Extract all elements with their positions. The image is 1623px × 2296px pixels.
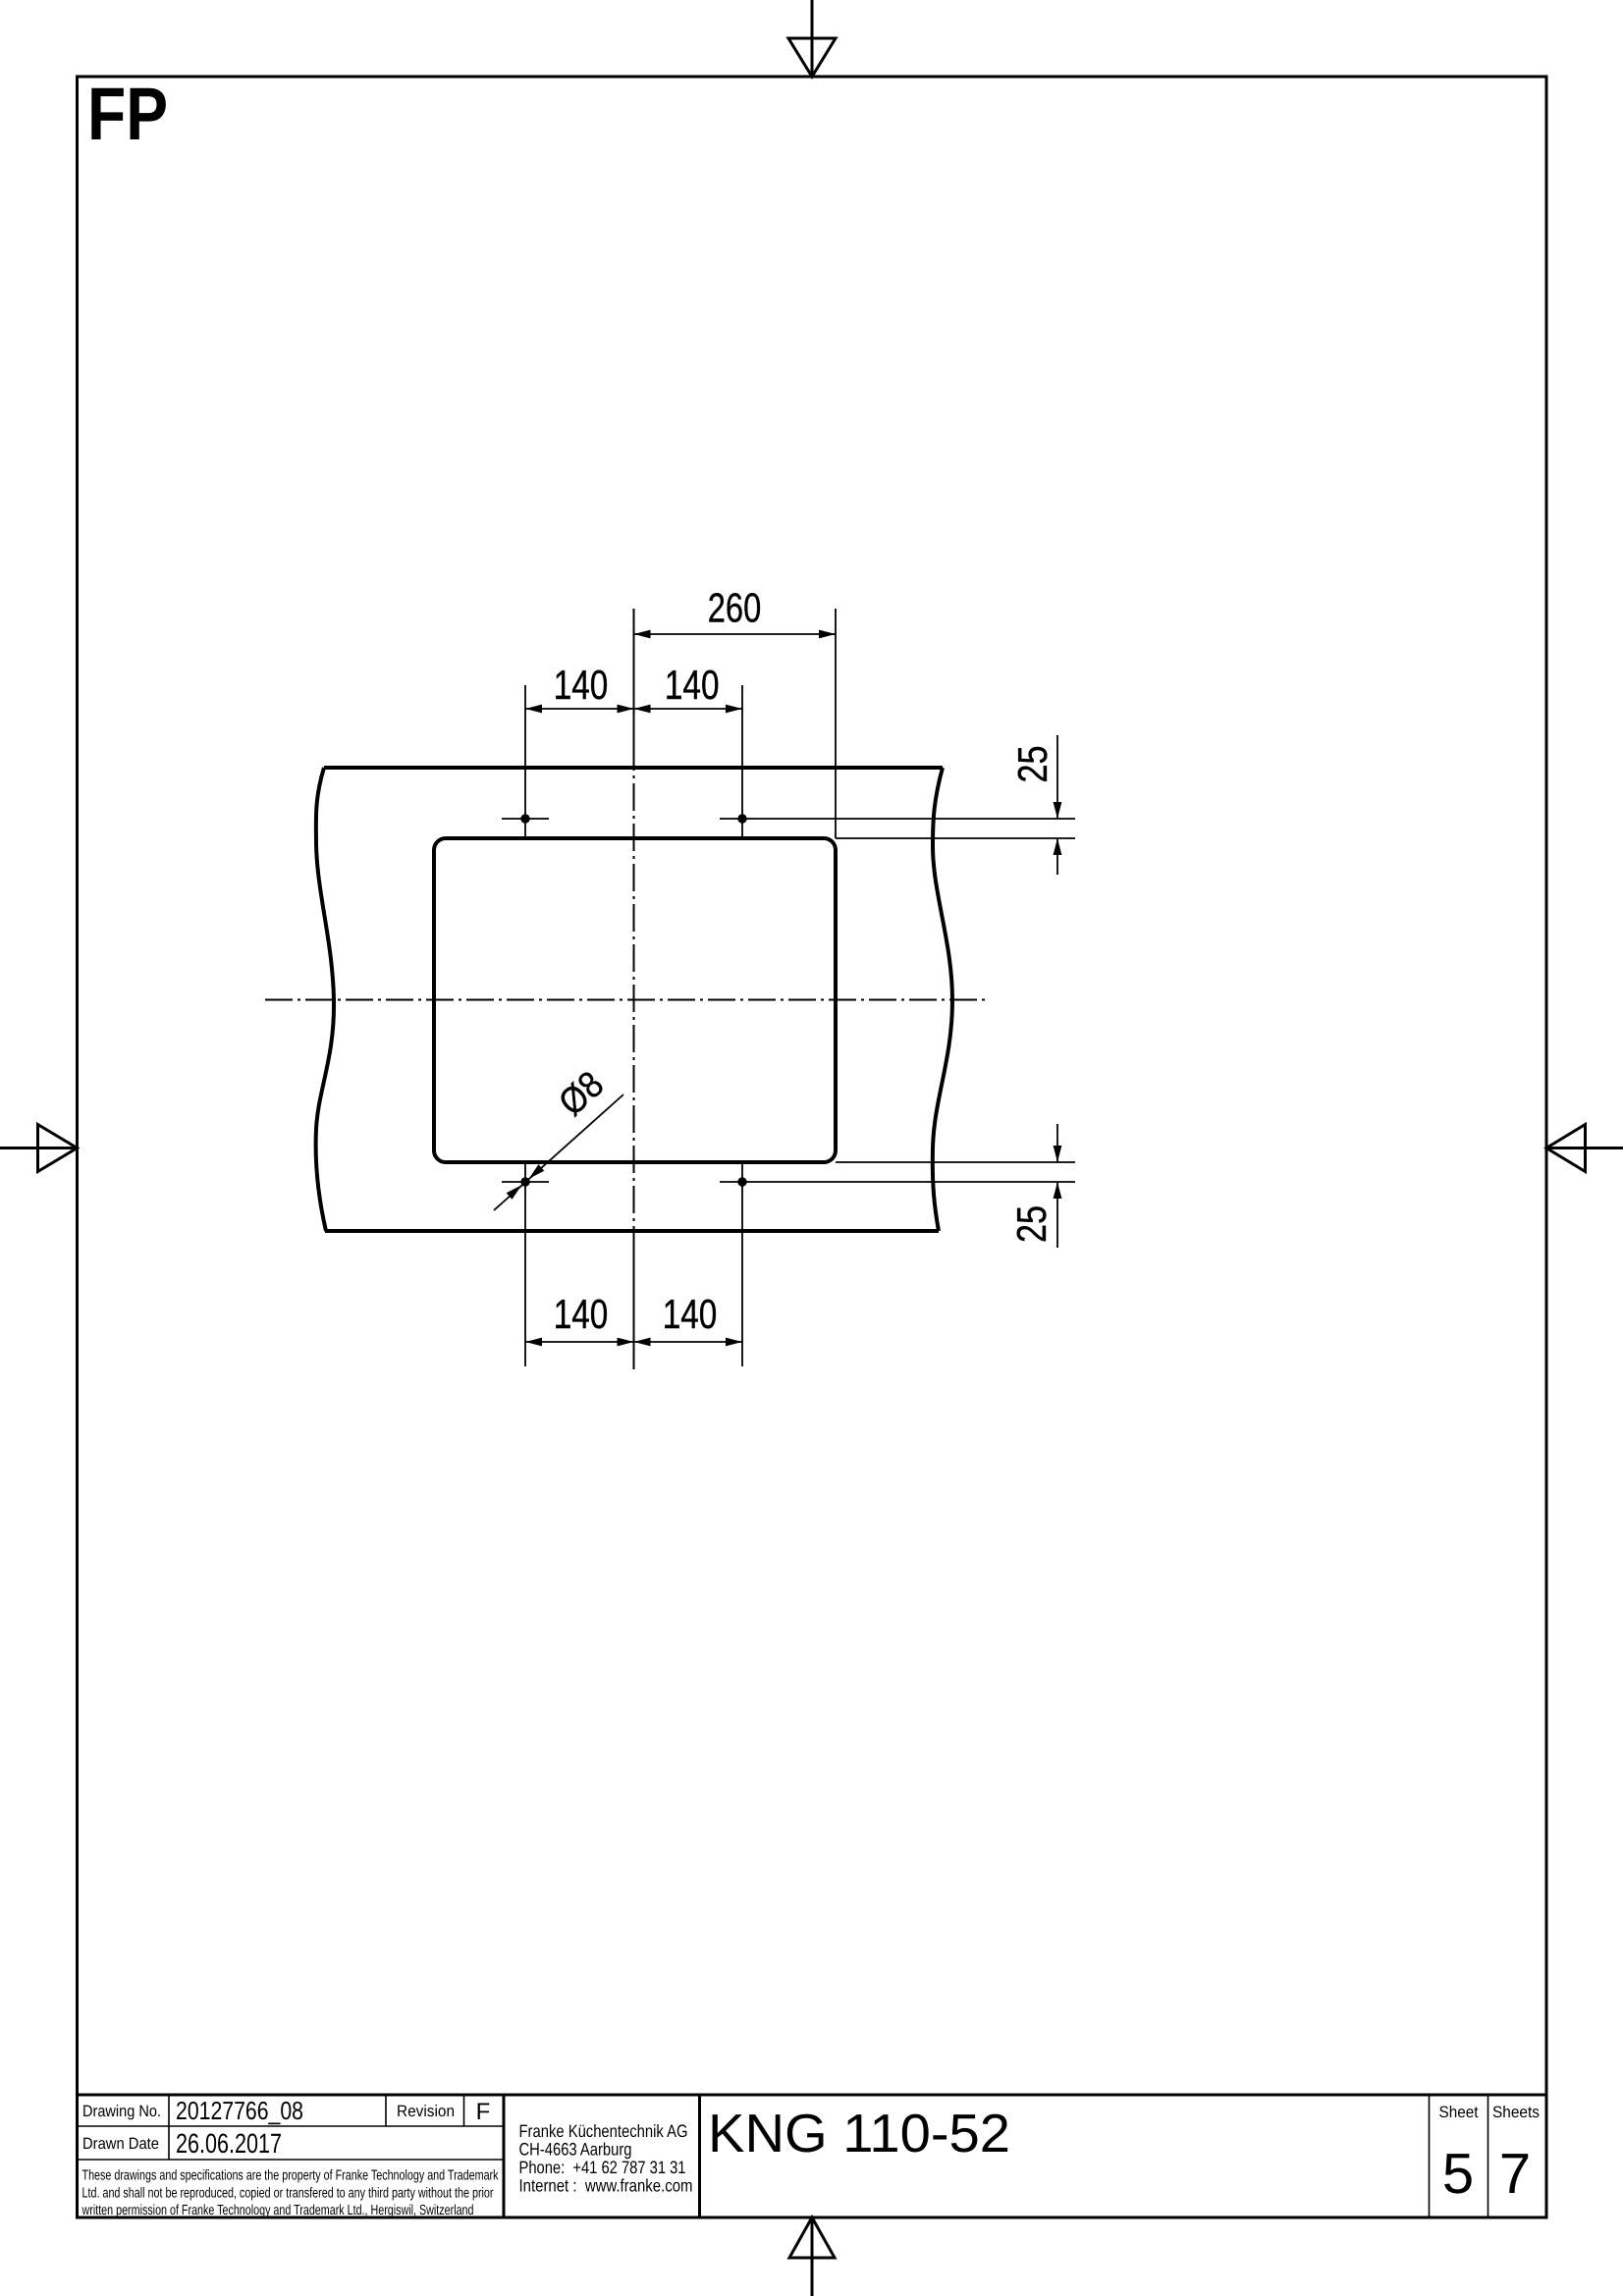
divider before revision letter	[463, 2095, 465, 2126]
svg-text:KNG 110-52: KNG 110-52	[708, 2103, 1010, 2163]
divider before Sheet cell	[1429, 2095, 1431, 2217]
centering mark right	[1546, 1125, 1623, 1172]
svg-text:CH-4663 Aarburg: CH-4663 Aarburg	[519, 2140, 632, 2160]
extension line top-left hole	[524, 685, 526, 838]
dimension line 25 top upper	[1056, 735, 1058, 819]
svg-text:Sheet: Sheet	[1439, 2104, 1479, 2121]
extension line right edge of cutout (for 260 dim)	[835, 609, 837, 838]
divider before Sheets cell	[1488, 2095, 1489, 2217]
extension line cutout bottom edge (to 25 dim)	[836, 1161, 1075, 1163]
svg-text:25: 25	[1008, 1205, 1055, 1243]
dimension line 25 bottom lower	[1056, 1182, 1058, 1248]
svg-text:written permission of Franke T: written permission of Franke Technology …	[81, 2203, 474, 2218]
centering mark left	[0, 1125, 78, 1172]
arrow top-140 far left	[525, 705, 542, 714]
dimension line 140/140 top	[525, 708, 742, 710]
svg-text:Ltd. and shall not be reproduc: Ltd. and shall not be reproduced, copied…	[82, 2186, 494, 2202]
svg-text:140: 140	[665, 662, 720, 708]
vertical centerline: solid extension top	[633, 609, 635, 743]
divider after label column	[168, 2095, 170, 2160]
row divider 1	[78, 2125, 505, 2127]
vertical centerline: solid extension bottom	[633, 1254, 635, 1369]
svg-text:Sheets: Sheets	[1492, 2104, 1540, 2121]
svg-text:Drawn Date: Drawn Date	[82, 2135, 159, 2153]
hole bottom-left	[520, 1177, 529, 1186]
title block divider left of model cell	[698, 2095, 701, 2217]
extension line cutout top edge (to 25 dim)	[836, 837, 1075, 839]
extension line top-right hole	[741, 685, 743, 838]
svg-text:25: 25	[1009, 746, 1055, 783]
workpiece top edge	[324, 766, 943, 770]
arrow 260 right	[819, 630, 836, 639]
dimension line 260	[634, 633, 837, 635]
svg-text:F: F	[476, 2099, 491, 2125]
arrow 25 bottom down	[1054, 1146, 1062, 1162]
arrow bottom-140 center left	[618, 1338, 634, 1347]
svg-text:7: 7	[1499, 2142, 1531, 2206]
arrow top-140 center right	[634, 705, 651, 714]
svg-text:Drawing No.: Drawing No.	[82, 2103, 161, 2120]
workpiece right break line	[933, 768, 952, 1231]
cutout rectangle	[434, 838, 836, 1162]
title block top border	[78, 2094, 1547, 2097]
arrow 25 top up	[1054, 838, 1062, 855]
tick bottom-left hole	[502, 1181, 549, 1183]
svg-text:140: 140	[554, 662, 609, 708]
svg-text:20127766_08: 20127766_08	[176, 2096, 303, 2125]
hole top-right	[737, 814, 746, 823]
tick top-left hole	[502, 818, 549, 820]
dimension line 25 bottom upper	[1056, 1124, 1058, 1162]
arrow 25 bottom up	[1054, 1182, 1062, 1199]
leader arrow lower	[507, 1185, 522, 1200]
dimension line 25 top lower	[1056, 838, 1058, 875]
svg-text:5: 5	[1442, 2142, 1474, 2206]
vertical centerline dash-dot	[633, 743, 635, 1254]
workpiece bottom edge	[325, 1229, 939, 1233]
horizontal centerline	[265, 999, 990, 1001]
arrow top-140 far right	[726, 705, 742, 714]
svg-text:Revision: Revision	[397, 2103, 455, 2120]
hole top-left	[520, 814, 529, 823]
svg-text:These drawings and specificati: These drawings and specifications are th…	[82, 2168, 500, 2184]
divider before Revision	[385, 2095, 387, 2126]
arrow bottom-140 center right	[634, 1338, 651, 1347]
arrow bottom-140 far right	[726, 1338, 742, 1347]
svg-text:26.06.2017: 26.06.2017	[176, 2128, 282, 2159]
centering mark bottom	[789, 2217, 835, 2296]
extension line top hole row (to 25 dim)	[720, 818, 1075, 820]
row divider 2	[78, 2159, 505, 2161]
arrow top-140 center left	[618, 705, 634, 714]
extension line bottom hole row (to 25 dim)	[720, 1181, 1075, 1183]
leader arrow upper	[529, 1164, 545, 1179]
svg-text:140: 140	[554, 1291, 609, 1337]
arrow 25 top down	[1054, 802, 1062, 819]
workpiece left break line	[316, 768, 334, 1231]
extension line bottom-right hole	[741, 1162, 743, 1366]
dimension line 140/140 bottom	[525, 1341, 742, 1343]
svg-text:Internet : www.franke.com: Internet : www.franke.com	[519, 2176, 693, 2196]
svg-text:140: 140	[663, 1291, 718, 1337]
svg-text:Franke Küchentechnik AG: Franke Küchentechnik AG	[519, 2121, 688, 2141]
svg-text:FP: FP	[87, 73, 168, 156]
extension line bottom-left hole	[524, 1162, 526, 1366]
hole bottom-right	[737, 1177, 746, 1186]
svg-text:260: 260	[708, 585, 762, 631]
centering mark top	[788, 0, 836, 77]
arrow 260 left	[634, 630, 651, 639]
title block divider left of company cell	[503, 2095, 506, 2217]
arrow bottom-140 far left	[525, 1338, 542, 1347]
diameter leader line	[494, 1095, 623, 1210]
svg-text:Phone: +41 62 787 31 31: Phone: +41 62 787 31 31	[519, 2158, 686, 2177]
